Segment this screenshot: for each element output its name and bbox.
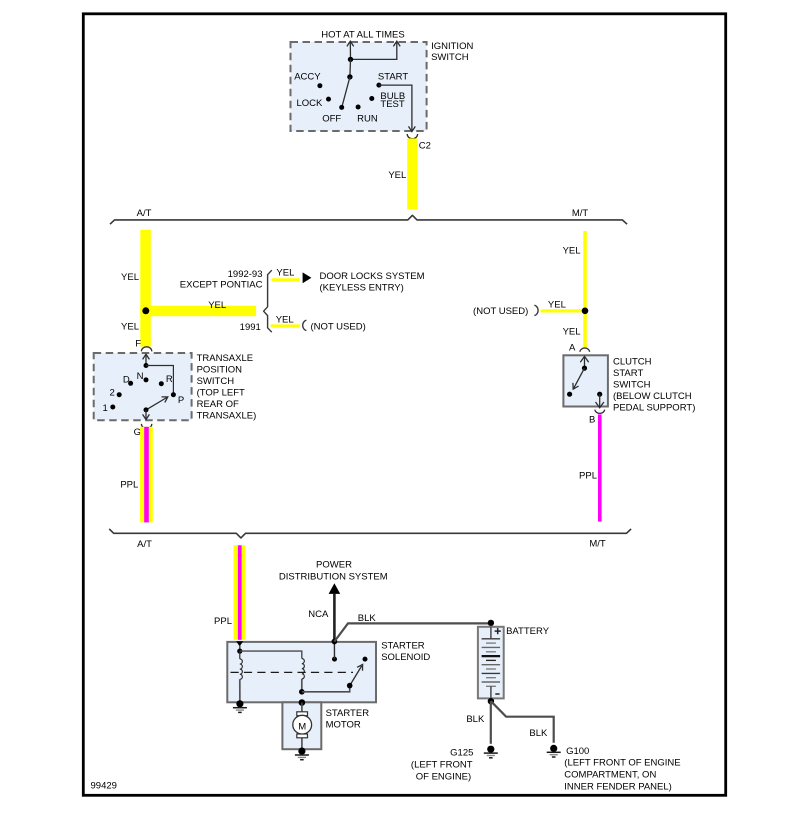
- svg-text:A/T: A/T: [137, 208, 152, 219]
- svg-text:SWITCH: SWITCH: [613, 380, 651, 391]
- svg-text:STARTER: STARTER: [381, 640, 425, 651]
- contact START: [376, 71, 408, 87]
- svg-text:(TOP LEFT: (TOP LEFT: [197, 388, 245, 399]
- solenoid contact from NCA feed: [332, 642, 337, 662]
- wire PPL to starter solenoid (striped): [214, 545, 245, 640]
- node: pull-in coil to contact: [299, 689, 305, 695]
- connector end (M/T not used): [534, 305, 538, 315]
- svg-text:G125: G125: [450, 748, 473, 759]
- svg-text:A: A: [569, 342, 576, 353]
- battery: [478, 627, 504, 699]
- contact D: [123, 375, 133, 386]
- label YEL (upper): [121, 272, 139, 283]
- svg-text:YEL: YEL: [388, 170, 406, 181]
- connector C2: [407, 134, 431, 152]
- brace: year options: [264, 270, 272, 332]
- svg-text:PPL: PPL: [214, 616, 232, 627]
- wire YEL stub to door locks: [272, 267, 300, 281]
- svg-text:POWER: POWER: [316, 560, 352, 571]
- label HOT AT ALL TIMES: [321, 30, 404, 41]
- svg-text:YEL: YEL: [548, 299, 566, 310]
- svg-text:YEL: YEL: [563, 246, 581, 257]
- label 1991: [240, 322, 261, 333]
- svg-text:START: START: [613, 368, 643, 379]
- svg-text:STARTER: STARTER: [326, 708, 370, 719]
- svg-text:F: F: [135, 338, 141, 349]
- solenoid hold-in coil: [240, 651, 243, 704]
- ground G100: [547, 745, 561, 757]
- svg-text:HOT AT ALL TIMES: HOT AT ALL TIMES: [321, 30, 404, 41]
- svg-text:(LEFT FRONT OF ENGINE: (LEFT FRONT OF ENGINE: [564, 758, 680, 769]
- wire: ignition feed branch (right arrow): [351, 41, 401, 59]
- label G100 (LEFT FRONT OF ENGINE COMPARTMENT, ON INNER FENDER PANEL): [564, 746, 680, 792]
- svg-text:P: P: [178, 395, 184, 406]
- solenoid pull-in coil: [302, 659, 305, 692]
- label G125 (LEFT FRONT OF ENGINE): [411, 748, 473, 783]
- transaxle position switch box: [94, 353, 192, 420]
- svg-text:YEL: YEL: [121, 322, 139, 333]
- contact P: [171, 392, 184, 406]
- transaxle switch: arrow up to F: [143, 354, 150, 368]
- wire BLK battery to G100: [491, 701, 554, 743]
- wire YEL from C2 (thick yellow): [388, 138, 417, 209]
- arrow to DOOR LOCKS SYSTEM: [303, 272, 312, 283]
- arrowhead: PPL into solenoid: [236, 641, 243, 646]
- svg-text:(NOT USED): (NOT USED): [473, 306, 528, 317]
- svg-text:(LEFT FRONT: (LEFT FRONT: [411, 760, 473, 771]
- svg-text:LOCK: LOCK: [297, 98, 324, 109]
- wire: START contact to connector C2: [379, 85, 415, 132]
- wire YEL stub 1991 (not used): [271, 315, 300, 328]
- wire: coil node to solenoid switch: [302, 686, 350, 692]
- node: NCA / BLK junction on box edge: [332, 639, 338, 645]
- wire YEL A/T vertical (thick): [140, 230, 151, 347]
- node: YEL junction (M/T): [582, 308, 589, 315]
- svg-text:OF ENGINE): OF ENGINE): [416, 771, 471, 782]
- starter motor box: [282, 702, 321, 749]
- svg-text:EXCEPT PONTIAC: EXCEPT PONTIAC: [180, 280, 263, 291]
- contact ACCY: [294, 71, 322, 88]
- connector B: [589, 410, 605, 426]
- connector A: [569, 342, 590, 353]
- svg-text:(NOT USED): (NOT USED): [311, 321, 366, 332]
- label STARTER SOLENOID: [381, 640, 430, 663]
- solenoid switch lever: [347, 664, 363, 688]
- svg-text:YEL: YEL: [208, 300, 226, 311]
- label (NOT USED) M/T: [473, 306, 528, 317]
- svg-text:PEDAL SUPPORT): PEDAL SUPPORT): [613, 403, 695, 414]
- label YEL (M/T lower): [563, 326, 581, 337]
- connector G: [134, 424, 152, 438]
- svg-text:M: M: [298, 722, 306, 733]
- node: solenoid output to motor: [299, 699, 306, 706]
- wire: PPL entry to coils junction: [237, 646, 242, 654]
- ignition switch rotor pivot: [347, 59, 352, 79]
- svg-text:PPL: PPL: [579, 470, 597, 481]
- label (NOT USED) 1991: [311, 321, 366, 332]
- node label M/T (bottom): [589, 539, 606, 550]
- clutch start switch box: [563, 355, 608, 406]
- svg-text:SWITCH: SWITCH: [197, 376, 235, 387]
- ground G125: [484, 746, 498, 758]
- svg-text:SOLENOID: SOLENOID: [381, 652, 430, 663]
- label DOOR LOCKS SYSTEM (KEYLESS ENTRY): [320, 271, 425, 294]
- svg-text:PPL: PPL: [120, 480, 138, 491]
- label CLUTCH START SWITCH: [613, 357, 695, 414]
- svg-text:NCA: NCA: [308, 609, 329, 620]
- wire BLK solenoid to battery: [334, 613, 491, 641]
- svg-text:R: R: [166, 374, 173, 385]
- svg-text:G100: G100: [566, 746, 589, 757]
- label YEL (M/T upper): [563, 246, 581, 257]
- svg-text:2: 2: [110, 388, 115, 399]
- svg-text:BLK: BLK: [466, 714, 485, 725]
- contact OFF: [322, 105, 344, 125]
- clutch switch: B contact arrow down: [596, 392, 604, 408]
- contact LOCK: [297, 97, 332, 110]
- label STARTER MOTOR: [326, 708, 370, 731]
- wire: junction to pull-in coil: [240, 651, 302, 658]
- wire BLK battery to G125: [466, 701, 490, 744]
- ignition switch lever (to OFF): [342, 77, 350, 107]
- wire: ignition feed to HOT AT ALL TIMES (left arrow): [347, 41, 354, 59]
- page border frame: [83, 14, 725, 796]
- svg-text:REAR OF: REAR OF: [197, 399, 239, 410]
- transaxle switch lever (points to P): [144, 397, 168, 413]
- contact R: [159, 374, 173, 386]
- svg-text:YEL: YEL: [276, 267, 294, 278]
- svg-text:B: B: [589, 414, 595, 425]
- svg-text:OFF: OFF: [322, 113, 341, 124]
- ignition switch box: [291, 42, 427, 131]
- svg-text:DOOR LOCKS SYSTEM: DOOR LOCKS SYSTEM: [320, 271, 425, 282]
- brace: transmission merge (bottom): [109, 529, 631, 538]
- svg-text:YEL: YEL: [276, 315, 294, 326]
- svg-text:INNER FENDER PANEL): INNER FENDER PANEL): [564, 781, 672, 792]
- node: YEL junction (A/T): [142, 307, 149, 314]
- contact 1: [103, 403, 116, 414]
- ground (solenoid case): [233, 700, 247, 712]
- svg-text:TRANSAXLE): TRANSAXLE): [197, 411, 257, 422]
- svg-text:POSITION: POSITION: [197, 365, 243, 376]
- starter motor M symbol: [293, 703, 312, 751]
- label YEL (lower): [121, 322, 139, 333]
- transaxle switch: arrow down to G: [143, 410, 150, 420]
- clutch switch lever: [567, 368, 585, 397]
- starter solenoid box: [227, 642, 376, 702]
- diagram number label 99429: [91, 781, 117, 792]
- node label A/T (bottom): [137, 539, 152, 550]
- svg-text:1992-93: 1992-93: [228, 269, 263, 280]
- clutch switch: arrow up to A: [580, 356, 588, 370]
- wire YEL branch horizontal (thick): [140, 300, 256, 316]
- svg-text:CLUTCH: CLUTCH: [613, 357, 652, 368]
- wire YEL not-used stub (M/T): [541, 299, 586, 312]
- svg-text:DISTRIBUTION SYSTEM: DISTRIBUTION SYSTEM: [279, 571, 388, 582]
- contact 2: [110, 388, 122, 399]
- svg-text:C2: C2: [419, 141, 431, 152]
- wire PPL A/T (yellow/magenta striped): [120, 427, 152, 523]
- connector F: [135, 338, 152, 351]
- svg-text:N: N: [137, 371, 144, 382]
- node: battery positive terminal: [488, 620, 494, 626]
- svg-text:99429: 99429: [91, 781, 117, 792]
- svg-text:IGNITION: IGNITION: [431, 41, 473, 52]
- svg-text:M/T: M/T: [572, 208, 589, 219]
- svg-text:M/T: M/T: [589, 539, 606, 550]
- svg-text:COMPARTMENT, ON: COMPARTMENT, ON: [564, 770, 656, 781]
- svg-text:RUN: RUN: [357, 113, 378, 124]
- label POWER DISTRIBUTION SYSTEM: [279, 560, 388, 583]
- svg-text:MOTOR: MOTOR: [326, 719, 361, 730]
- svg-text:(BELOW CLUTCH: (BELOW CLUTCH: [613, 391, 692, 402]
- svg-text:G: G: [134, 427, 141, 438]
- svg-text:TRANSAXLE: TRANSAXLE: [197, 353, 254, 364]
- svg-text:YEL: YEL: [563, 326, 581, 337]
- contact N: [137, 371, 149, 382]
- contact RUN: [356, 105, 378, 125]
- brace: transmission split (top): [110, 215, 627, 224]
- node label M/T (top): [572, 208, 589, 219]
- svg-text:ACCY: ACCY: [294, 71, 321, 82]
- label BATTERY: [506, 626, 550, 637]
- svg-text:BLK: BLK: [529, 728, 548, 739]
- label TRANSAXLE POSITION SWITCH: [197, 353, 257, 422]
- wire YEL M/T vertical (thin): [583, 231, 587, 348]
- ground (starter motor): [295, 748, 309, 760]
- solenoid fixed contact: [363, 657, 368, 662]
- svg-text:YEL: YEL: [121, 272, 139, 283]
- node: ignition feed junction: [348, 57, 353, 62]
- svg-text:SWITCH: SWITCH: [431, 52, 469, 63]
- svg-text:START: START: [378, 71, 408, 82]
- svg-text:(KEYLESS ENTRY): (KEYLESS ENTRY): [320, 282, 404, 293]
- label IGNITION SWITCH: [431, 41, 473, 63]
- contact BULB TEST: [369, 91, 405, 110]
- svg-text:TEST: TEST: [380, 99, 404, 110]
- wire PPL M/T (magenta): [579, 414, 602, 521]
- svg-text:A/T: A/T: [137, 539, 152, 550]
- svg-text:BATTERY: BATTERY: [506, 626, 550, 637]
- svg-text:1: 1: [103, 403, 108, 414]
- arrow to POWER DISTRIBUTION SYSTEM (NCA): [308, 583, 340, 641]
- connector end (1991 not used): [303, 320, 307, 330]
- node: battery negative terminal: [488, 698, 494, 704]
- label 1992-93 EXCEPT PONTIAC: [180, 269, 263, 291]
- svg-text:1991: 1991: [240, 322, 261, 333]
- node label A/T (top): [137, 208, 152, 219]
- wire: common to P contact: [146, 366, 173, 395]
- svg-text:BLK: BLK: [358, 613, 377, 624]
- mechanical linkage (dashed): [231, 671, 354, 673]
